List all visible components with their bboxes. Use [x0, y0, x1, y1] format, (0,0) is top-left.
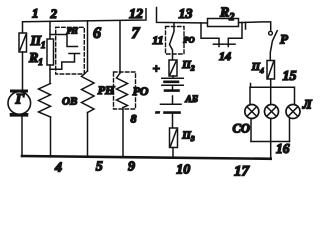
field winding OB (zigzag)	[39, 84, 51, 118]
svg-text:16: 16	[276, 141, 290, 156]
contact 14 bypassing R2 (left lead)	[201, 23, 219, 47]
svg-text:ОВ: ОВ	[62, 96, 77, 108]
resistor R2 (box)	[208, 19, 239, 27]
svg-text:РО: РО	[133, 84, 149, 98]
svg-text:10: 10	[176, 162, 190, 177]
contact 14 right bar	[225, 43, 235, 45]
svg-text:12: 12	[129, 7, 143, 22]
wire: PO coil to bottom bus	[122, 108, 124, 158]
svg-text:9: 9	[128, 160, 135, 175]
wire 7: bus A to PO coil	[119, 21, 121, 74]
svg-text:РН: РН	[98, 83, 115, 97]
PH contact: moving contact and armature	[50, 54, 80, 70]
battery stem	[172, 85, 174, 89]
wire: bus A down to fuse R1	[49, 21, 51, 39]
battery plate short 3	[165, 111, 180, 114]
battery plate long 2	[162, 84, 184, 86]
svg-text:2: 2	[50, 6, 58, 21]
svg-text:11: 11	[152, 33, 163, 47]
svg-text:Л: Л	[302, 97, 313, 112]
PO coil dashed box	[114, 72, 136, 109]
wire: lamp 2 lead and riser to main bus (node 16)	[270, 119, 272, 159]
wire: drop to lamp 1	[249, 87, 251, 105]
wire: bottom bus (nodes 4,5,9,10,17)	[22, 156, 271, 159]
svg-text:АБ: АБ	[185, 95, 198, 105]
svg-text:5: 5	[96, 160, 103, 175]
wire: lamp 3 to lamp bottom bus	[289, 118, 291, 141]
svg-text:П3: П3	[181, 130, 195, 144]
switch P: terminal circle	[269, 31, 273, 35]
wire: fuse П3 to bottom bus	[172, 148, 174, 159]
battery plate short 2	[165, 89, 179, 92]
svg-text:R1: R1	[28, 51, 43, 67]
PO relay coil (zigzag)	[117, 73, 128, 108]
PH contact: upper fixed contact	[50, 35, 78, 47]
wire: PH coil to bottom bus	[87, 113, 89, 158]
PO contact blade	[170, 23, 175, 60]
svg-text:15: 15	[283, 69, 297, 84]
battery АБ: top stub	[172, 76, 174, 78]
battery plate short 1	[165, 81, 179, 84]
svg-text:Г: Г	[15, 92, 25, 108]
battery plate long 3	[161, 103, 182, 105]
contact 14 right lead	[228, 23, 242, 47]
lamp 2	[265, 105, 279, 119]
svg-text:СО: СО	[233, 122, 250, 136]
svg-text:П2: П2	[181, 59, 195, 73]
contact 14 left bar	[213, 43, 224, 45]
svg-text:РН: РН	[67, 26, 79, 35]
lamp 1 (CO)	[245, 105, 259, 119]
wire: battery to fuse П3	[172, 114, 174, 129]
svg-text:14: 14	[219, 49, 231, 63]
wire: generator to bottom bus	[21, 117, 23, 157]
PO contact dashed box	[166, 27, 185, 55]
wire: top bus A (nodes 1,2,12) with left corner and right riser terminal	[23, 9, 147, 33]
svg-text:П4: П4	[251, 62, 264, 75]
battery plate long 1	[162, 77, 184, 79]
wire: fuse П4 to lamp bus	[270, 79, 272, 87]
wire: fuse to field winding	[49, 65, 51, 84]
fuse П2 (rect with diagonal)	[169, 60, 177, 76]
svg-text:1: 1	[32, 6, 39, 21]
wire: winding to bottom bus	[50, 117, 52, 157]
PH relay coil (zigzag)	[82, 71, 95, 113]
lamp 3 (Л)	[286, 105, 300, 119]
wire: fuse П1 to generator brush	[22, 52, 24, 90]
wire: drop to lamp 2	[270, 87, 272, 104]
fuse П3 (rect with diagonal)	[170, 128, 178, 148]
lamp bottom bus	[251, 141, 290, 143]
switch P: blade	[270, 31, 277, 61]
svg-text:РО: РО	[183, 34, 194, 44]
generator Г: brushes	[12, 90, 27, 93]
fuse П4 (rect with diagonal)	[267, 61, 275, 80]
wire: bus B from R2 to switch P	[239, 22, 271, 31]
svg-text:П1: П1	[30, 33, 46, 50]
battery stem dash	[172, 96, 174, 104]
regulator PH dashed box	[56, 27, 85, 74]
generator Г: body circle	[8, 92, 31, 115]
connector stub (to lamp circuit)	[245, 22, 247, 29]
resistor R1 (plain rect)	[47, 39, 54, 65]
wire: lamp 1 to lamp bottom bus	[250, 119, 252, 142]
wire 6: bus A to PH coil	[87, 21, 89, 71]
svg-text:6: 6	[93, 25, 101, 42]
svg-text:17: 17	[234, 164, 250, 180]
fuse П1 (rect with diagonal)	[19, 33, 27, 52]
connector riser: bus B terminal (node 13 side)	[157, 8, 208, 24]
svg-text:4: 4	[54, 161, 62, 176]
svg-text:7: 7	[132, 25, 141, 42]
svg-text:8: 8	[131, 112, 137, 126]
svg-text:Р: Р	[280, 32, 289, 47]
svg-text:-: -	[156, 104, 160, 119]
svg-text:13: 13	[179, 7, 193, 22]
lamp top bus with connector stub	[251, 84, 295, 105]
svg-text:+: +	[153, 61, 160, 76]
svg-text:R2: R2	[219, 6, 234, 24]
